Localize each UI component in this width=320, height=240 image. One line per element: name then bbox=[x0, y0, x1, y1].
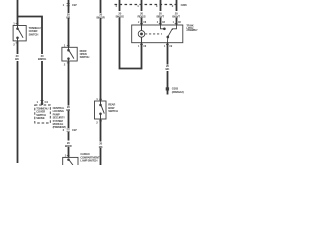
connector C306 stub 1 bbox=[141, 0, 143, 11]
svg-text:1: 1 bbox=[137, 4, 139, 8]
roof open switch box bbox=[62, 47, 77, 61]
svg-text:BR: BR bbox=[66, 16, 70, 20]
svg-text:C8: C8 bbox=[143, 22, 146, 24]
svg-text:2: 2 bbox=[172, 4, 174, 8]
svg-text:SWITCH: SWITCH bbox=[108, 109, 118, 113]
trunk latch ajar switch bbox=[161, 25, 177, 43]
svg-text:2: 2 bbox=[13, 43, 15, 47]
tonneau cover switch box bbox=[13, 26, 26, 41]
wire latch switch to ground bbox=[167, 43, 169, 65]
svg-text:C8: C8 bbox=[162, 22, 165, 24]
wire below rear bow switch to bottom bbox=[100, 148, 102, 165]
svg-text:BK: BK bbox=[99, 145, 103, 149]
cargo compartment lamp switch box bbox=[63, 157, 78, 169]
svg-text:BK: BK bbox=[166, 67, 170, 71]
wire below tonneau switch bbox=[17, 41, 19, 54]
svg-text:2: 2 bbox=[138, 22, 140, 24]
svg-text:C97: C97 bbox=[72, 128, 77, 132]
svg-text:1: 1 bbox=[64, 43, 66, 47]
wire below rear bow switch bbox=[100, 119, 102, 142]
svg-text:(306/9x12): (306/9x12) bbox=[172, 90, 184, 94]
svg-text:BR/W: BR/W bbox=[65, 144, 72, 148]
svg-text:3: 3 bbox=[156, 4, 158, 8]
wire branch to module bbox=[18, 17, 43, 55]
svg-text:1: 1 bbox=[13, 21, 15, 25]
wire segment into cargo box bbox=[68, 147, 70, 157]
wire tonneau switch feed bbox=[17, 0, 19, 26]
connector C306 dashed line bbox=[115, 4, 177, 6]
svg-text:1: 1 bbox=[138, 46, 140, 48]
trunk latch motor M bbox=[138, 25, 145, 43]
connector C306 stub 3 bbox=[160, 0, 162, 11]
tonneau cover switch contacts bbox=[17, 26, 23, 42]
wire roof open switch to cargo lamp switch bbox=[68, 61, 70, 106]
svg-text:BK/OG: BK/OG bbox=[116, 15, 124, 19]
connector C306 stub 2 bbox=[176, 0, 178, 11]
svg-text:SWITCH: SWITCH bbox=[29, 32, 39, 36]
svg-text:2: 2 bbox=[64, 62, 66, 66]
wire pin2 to latch switch bbox=[176, 18, 178, 26]
inline connector C4 bbox=[40, 100, 43, 102]
wire segment below break bbox=[68, 111, 70, 129]
wire roof open switch feed bbox=[68, 0, 70, 13]
rear bow switch box bbox=[95, 101, 107, 119]
svg-text:C97: C97 bbox=[72, 3, 77, 7]
roof open switch contacts bbox=[68, 47, 74, 61]
svg-text:2: 2 bbox=[96, 120, 98, 124]
inline connector C97 top bbox=[67, 3, 70, 5]
svg-text:SENSE: SENSE bbox=[36, 116, 45, 120]
svg-text:SWITCH: SWITCH bbox=[80, 55, 90, 59]
latch box pin ticks bbox=[140, 22, 143, 24]
svg-text:BR: BR bbox=[66, 108, 70, 112]
wire below tonneau switch to page bottom bbox=[17, 61, 19, 163]
central locking pump module dashed box bbox=[35, 105, 51, 123]
wire ground segment bbox=[167, 71, 169, 95]
wire roof open switch feed lower bbox=[68, 18, 70, 47]
wire branch lower to module connector bbox=[41, 61, 43, 105]
svg-text:BK: BK bbox=[15, 57, 19, 61]
wire pin1 to latch motor bbox=[141, 18, 143, 26]
svg-text:1: 1 bbox=[63, 3, 65, 7]
svg-text:BK/VT: BK/VT bbox=[172, 15, 180, 19]
svg-text:1: 1 bbox=[173, 22, 175, 24]
pin ticks bbox=[16, 4, 178, 156]
svg-text:BR/OG: BR/OG bbox=[38, 57, 46, 61]
svg-text:BK/OR: BK/OR bbox=[97, 16, 105, 20]
svg-text:1: 1 bbox=[37, 100, 39, 104]
rear bow switch contacts bbox=[100, 101, 105, 119]
cargo compartment lamp switch contacts bbox=[68, 159, 73, 165]
svg-text:C4: C4 bbox=[45, 100, 49, 104]
svg-text:C9: C9 bbox=[169, 46, 172, 48]
svg-text:3: 3 bbox=[157, 22, 159, 24]
wire rear bow switch feed lower bbox=[100, 18, 102, 101]
inline connector C97 lower bbox=[67, 128, 70, 130]
svg-text:LAMP SWITCH: LAMP SWITCH bbox=[80, 159, 97, 163]
ground G303 symbol bbox=[166, 87, 169, 90]
svg-text:BR/VT: BR/VT bbox=[156, 15, 164, 19]
svg-text:ASSEMBLY: ASSEMBLY bbox=[186, 29, 198, 32]
wire rear bow switch feed bbox=[100, 0, 102, 13]
svg-text:C8: C8 bbox=[178, 22, 181, 24]
wire segment below connector C97 bbox=[68, 132, 70, 141]
svg-text:1: 1 bbox=[164, 46, 166, 48]
svg-text:C8: C8 bbox=[143, 46, 146, 48]
wire pin4 to latch motor return bbox=[120, 18, 142, 69]
connector C306 stub 4 bbox=[119, 0, 121, 11]
svg-text:RD/GS: RD/GS bbox=[138, 15, 146, 19]
svg-text:C306: C306 bbox=[181, 3, 188, 7]
latch mechanical dashed link bbox=[145, 33, 162, 35]
wire pin3 to latch switch bbox=[160, 18, 162, 26]
trunk latch assembly box bbox=[132, 25, 183, 43]
